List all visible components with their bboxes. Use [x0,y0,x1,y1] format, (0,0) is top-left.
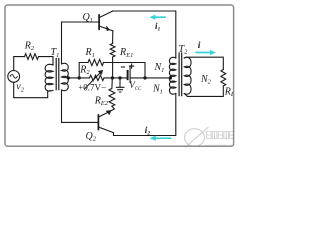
battery plus sign [130,64,134,68]
svg-text:i1: i1 [155,21,161,33]
transformer T2 secondary winding [184,57,191,94]
current arrow i1 [155,16,166,18]
node T2 center tap [169,76,172,79]
svg-text:+0.7V−: +0.7V− [78,82,106,92]
border frame [5,5,234,146]
resistor RE2 [109,78,115,106]
wire R1 left lead [79,63,88,78]
wire Q1 collector to top rail [113,11,176,58]
transistor Q2 [97,115,99,130]
svg-text:VCC: VCC [129,80,142,92]
watermark logo swoosh [185,129,205,147]
resistor Rs [25,54,39,60]
battery Vcc short plate [127,71,129,79]
svg-text:R2: R2 [79,64,90,76]
transformer T1 core [56,59,59,90]
wire Q1 emitter to RE1 [112,31,114,44]
transformer T2 core [179,53,182,96]
node ground junction [118,76,121,79]
wire RL bottom to T2 secondary bottom [184,86,223,96]
wire RE1 to mid rail [112,57,114,78]
svg-text:N1: N1 [152,84,163,96]
node emitter resistors junction [111,76,114,79]
wire mid rail left of battery [104,77,128,79]
wire source bottom loop [14,82,51,97]
svg-text:i: i [198,41,201,51]
potentiometer R2 [90,75,105,80]
current arrow i2 [155,137,171,139]
transformer T2 primary winding [169,57,175,94]
potentiometer R2 wiper arrow [85,72,101,89]
battery Vcc long plate [129,67,131,83]
wire mid rail right of battery to T2 tap [130,77,170,79]
wire Rs to T1 primary [39,57,54,65]
transformer T1 secondary winding [62,63,69,90]
svg-text:R1: R1 [85,47,95,59]
wire T1 center tap [67,77,90,79]
watermark characters [207,132,234,139]
svg-text:v2: v2 [16,82,24,94]
wire RE2 to Q2 emitter [99,106,115,117]
resistor RL [221,70,226,87]
svg-text:N1: N1 [154,62,165,74]
node T1 center tap [67,76,70,79]
wire T1 secondary bottom to Q2 base [62,90,98,122]
transistor Q1 emitter arrow [107,26,110,31]
wire T2 secondary top to RL [184,57,223,69]
node battery plus junction [143,76,146,79]
resistor RE1 [110,44,115,58]
svg-text:RE1: RE1 [119,47,133,59]
wire R1 right lead to battery plus node [104,63,146,78]
wire T1 secondary top to Q1 base [62,22,99,64]
svg-text:i2: i2 [145,125,151,137]
transistor Q2 emitter arrow [106,110,111,114]
wire Q2 collector to T2 bottom [114,94,176,136]
svg-text:R2: R2 [24,40,35,52]
wire source top lead [14,57,25,71]
battery minus sign [121,66,124,68]
svg-text:RE2: RE2 [94,95,109,107]
node R1 left junction [78,76,81,79]
source vs [8,71,20,83]
ground [119,78,121,87]
current arrow i [196,52,211,54]
resistor R1 [88,59,104,65]
svg-text:Q1: Q1 [83,12,93,24]
svg-text:T1: T1 [51,47,60,59]
svg-text:Q2: Q2 [86,131,97,143]
svg-text:T2: T2 [179,44,189,56]
transistor Q1 [98,15,100,29]
transformer T1 primary winding [45,64,53,91]
svg-text:N2: N2 [200,74,212,86]
